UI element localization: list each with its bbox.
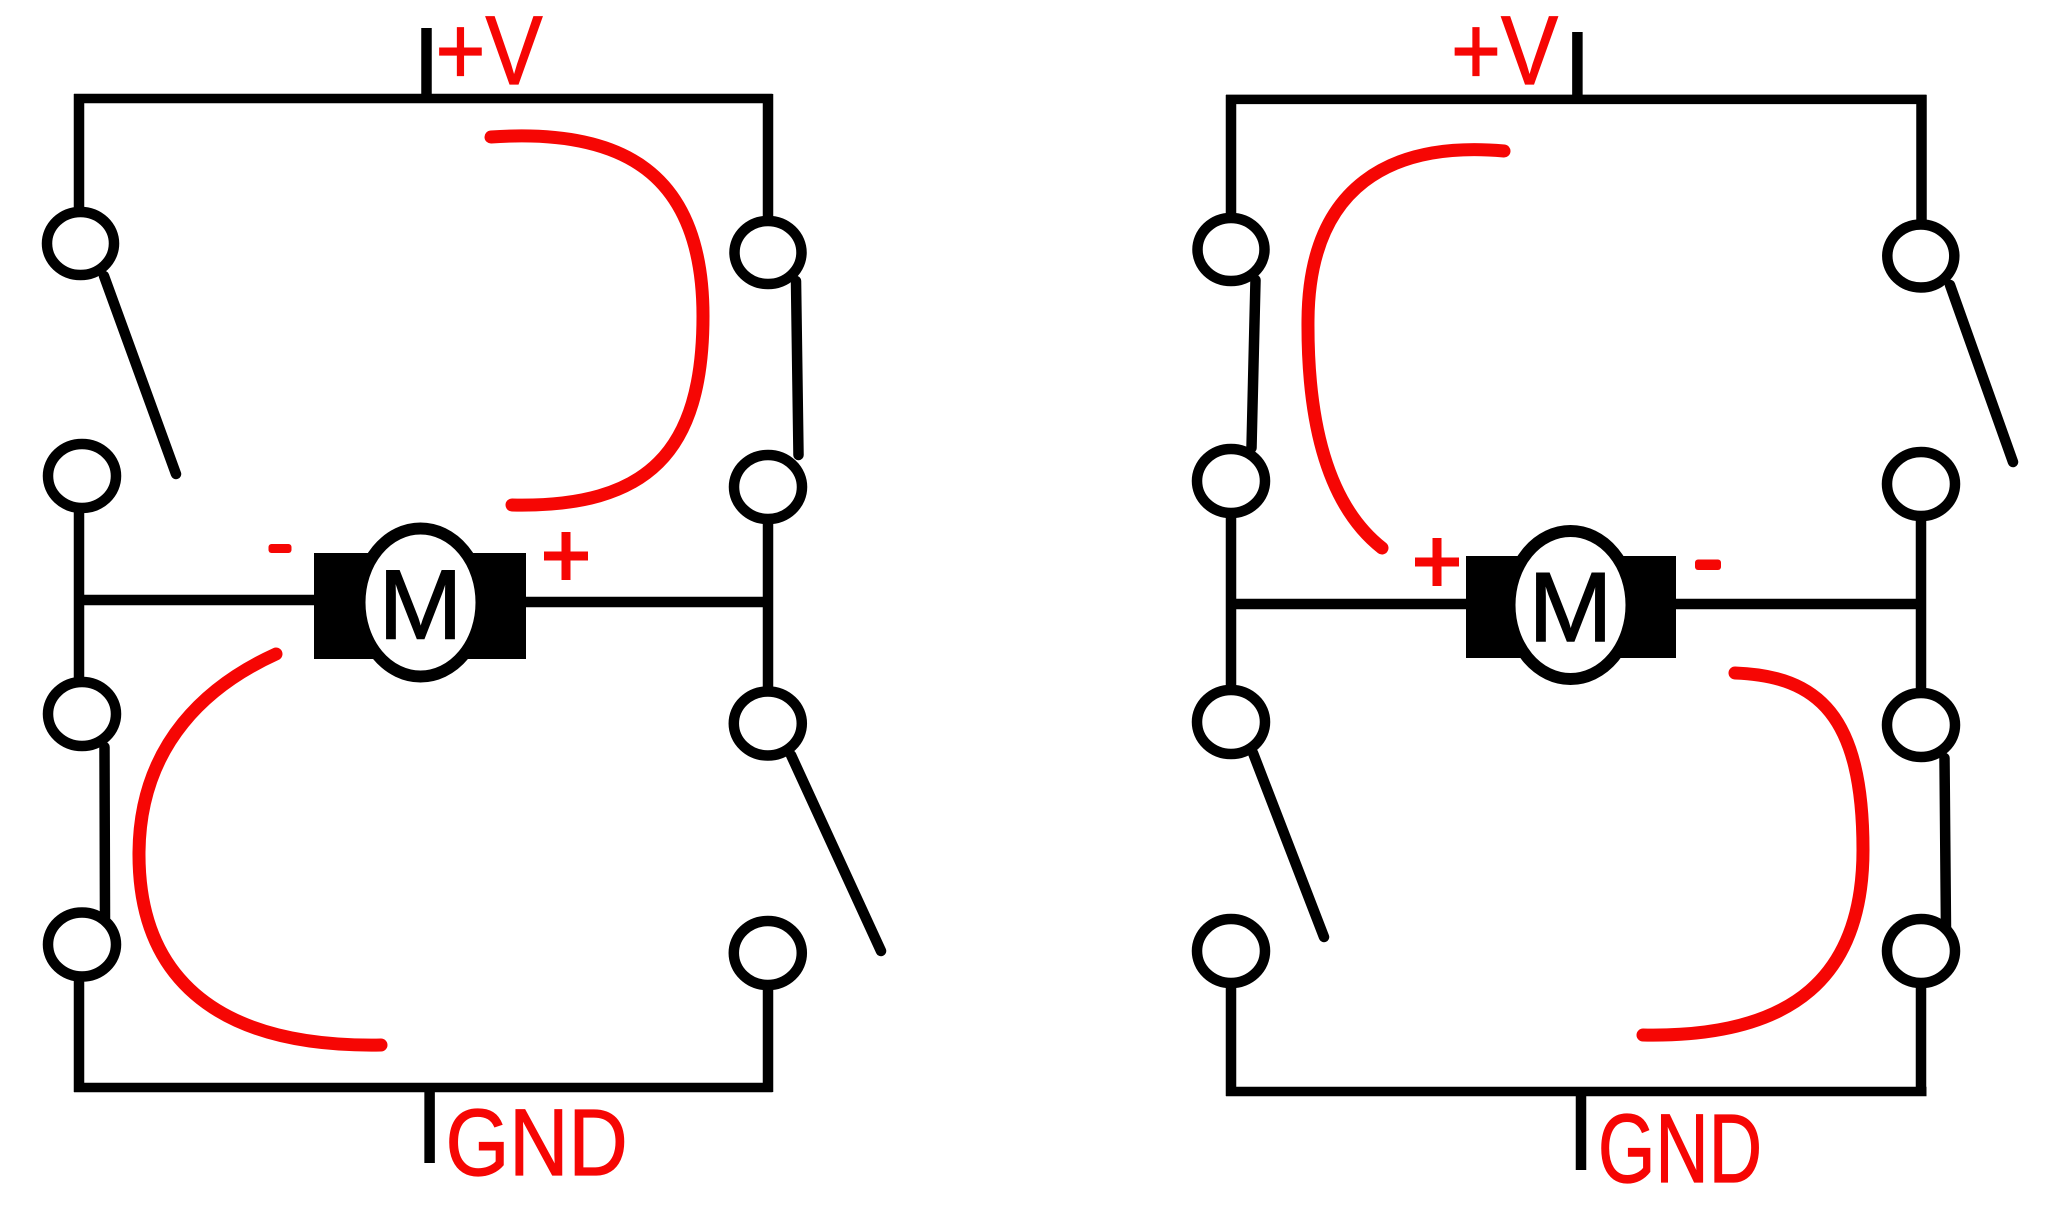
motor M1 can	[360, 529, 482, 677]
switch S8 terminal (bottom-right, lower contact)	[1887, 919, 1955, 983]
wire right drop from top rail to switch S2	[763, 94, 774, 222]
switch S3 lever (closed)	[99, 747, 110, 918]
wire from S7 lower contact to bottom rail	[1226, 982, 1237, 1096]
motor M1 body (brush block)	[314, 553, 526, 659]
svg-text:GND: GND	[446, 1090, 628, 1196]
wire bottom rail (right circuit)	[1226, 1087, 1927, 1097]
switch S6 lever (open)	[1950, 285, 2013, 462]
current-flow arrow (left circuit, top loop)	[491, 136, 703, 505]
polarity label "+" (left motor, positive terminal)	[544, 532, 588, 580]
wire motor rail right segment (right circuit)	[1672, 599, 1926, 610]
switch S5 lever (closed)	[1252, 280, 1256, 448]
wire from S2 lower contact through motor rail junction to S4	[763, 517, 774, 694]
wire right drop from top rail to switch S6	[1916, 95, 1927, 226]
switch S7 lever (open)	[1253, 753, 1324, 937]
switch S1 terminal (top-left, upper contact)	[47, 212, 114, 275]
wire motor rail left segment	[74, 595, 318, 606]
wire bottom rail (left circuit)	[74, 1083, 773, 1093]
switch S4 terminal (bottom-right, lower contact)	[734, 921, 802, 985]
svg-text:+V: +V	[1451, 0, 1558, 105]
switch S2 terminal (top-right, lower contact)	[734, 455, 802, 519]
wire top rail (left circuit)	[74, 94, 773, 104]
node GND (left) stub	[424, 1083, 435, 1163]
switch S2 lever (closed)	[796, 281, 799, 455]
wire from S5 lower contact to motor rail junction and S7	[1226, 511, 1237, 691]
switch S7 terminal (bottom-left, upper contact)	[1197, 690, 1265, 754]
switch S4 terminal (bottom-right, upper contact)	[734, 692, 802, 756]
switch S6 terminal (top-right, lower contact)	[1887, 452, 1955, 516]
switch S8 lever (closed)	[1945, 758, 1947, 930]
node +V (right) supply stub	[1572, 32, 1583, 104]
wire from S3 lower contact to bottom rail	[74, 975, 85, 1092]
switch S1 terminal (top-left, lower contact)	[48, 444, 116, 508]
switch S3 terminal (bottom-left, upper contact)	[48, 682, 116, 746]
switch S6 terminal (top-right, upper contact)	[1887, 225, 1954, 288]
svg-text:+V: +V	[436, 0, 543, 105]
wire from S4 lower contact to bottom rail	[763, 984, 774, 1092]
switch S5 terminal (top-left, upper contact)	[1198, 218, 1265, 281]
svg-text:M: M	[379, 549, 463, 659]
motor M2 can	[1510, 531, 1632, 679]
switch S3 terminal (bottom-left, lower contact)	[48, 913, 116, 977]
polarity label "-" (left motor, negative terminal)	[269, 544, 292, 553]
wire from S6 lower contact through motor rail junction to S8	[1916, 514, 1927, 694]
current-flow arrow (left circuit, bottom loop)	[139, 654, 381, 1045]
switch S2 terminal (top-right, upper contact)	[735, 221, 802, 284]
wire from S8 lower contact to bottom rail	[1916, 982, 1927, 1096]
wire motor rail right segment	[524, 597, 773, 608]
svg-text:GND: GND	[1598, 1094, 1762, 1203]
motor M2 body (brush block)	[1466, 556, 1676, 658]
node GND (right) stub	[1576, 1087, 1587, 1170]
switch S5 terminal (top-left, lower contact)	[1197, 449, 1265, 513]
polarity label "+" (right motor, positive terminal)	[1415, 538, 1459, 586]
node +V (left) supply stub	[421, 28, 432, 103]
svg-text:M: M	[1529, 552, 1613, 662]
wire left drop from top rail to switch S1	[74, 94, 85, 214]
current-flow arrow (right circuit, bottom loop)	[1643, 673, 1863, 1035]
wire top rail (right circuit)	[1226, 95, 1927, 105]
wire from S1 lower contact to motor rail junction and S3	[74, 506, 85, 684]
switch S7 terminal (bottom-left, lower contact)	[1197, 919, 1265, 983]
wire motor rail left segment (right circuit)	[1226, 599, 1470, 610]
wire left drop from top rail to switch S5	[1226, 95, 1237, 219]
switch S4 lever (open)	[791, 755, 881, 951]
switch S8 terminal (bottom-right, upper contact)	[1887, 693, 1955, 757]
switch S1 lever (open)	[104, 276, 176, 474]
polarity label "-" (right motor, negative terminal)	[1695, 560, 1721, 571]
current-flow arrow (right circuit, top loop)	[1308, 150, 1504, 548]
